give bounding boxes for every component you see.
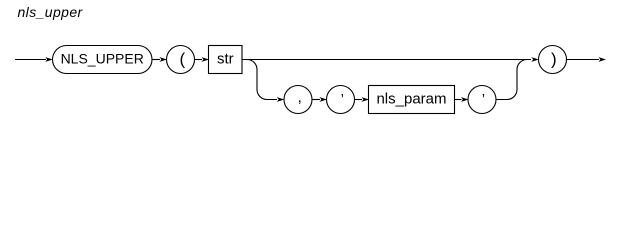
svg-text:’: ’ [341,91,344,108]
svg-text:str: str [217,50,234,67]
svg-text:): ) [551,50,557,69]
svg-text:,: , [298,89,302,106]
svg-text:nls_param: nls_param [376,91,446,108]
svg-text:NLS_UPPER: NLS_UPPER [61,50,144,66]
svg-text:nls_upper: nls_upper [18,4,84,20]
svg-text:’: ’ [482,91,485,108]
svg-text:(: ( [179,50,185,69]
